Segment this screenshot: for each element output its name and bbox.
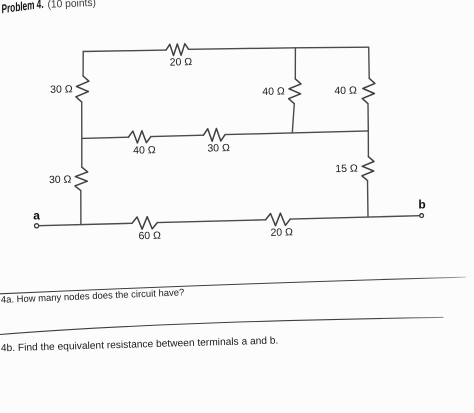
- resistor 30 ohm (upper left): [76, 76, 89, 102]
- svg-text:20 Ω: 20 Ω: [170, 56, 193, 69]
- svg-text:15 Ω: 15 Ω: [335, 163, 358, 176]
- wire: 20-ohm to T-junction to top-right corner: [189, 47, 369, 49]
- svg-text:(10 points): (10 points): [47, 0, 96, 11]
- wire: bottom rail between 60 and 20 ohm: [157, 220, 265, 223]
- resistor 40 ohm (right branch): [362, 78, 375, 103]
- wire: first 40-ohm branch upper lead: [294, 48, 296, 79]
- rule line for question 4a: [0, 277, 466, 294]
- svg-text:30 Ω: 30 Ω: [50, 83, 73, 96]
- svg-text:Problem 4.: Problem 4.: [1, 0, 45, 16]
- svg-text:40 Ω: 40 Ω: [334, 85, 357, 98]
- rule line for question 4b: [0, 317, 444, 334]
- resistor 20 ohm (bottom rail): [266, 213, 291, 226]
- wire: bottom rail 20 ohm to b: [290, 216, 419, 219]
- wire: right vertical between 40 and middle rail: [367, 104, 369, 131]
- resistor 20 ohm (top wire): [166, 44, 189, 56]
- svg-text:a: a: [33, 208, 40, 222]
- node b terminal: [420, 214, 424, 218]
- svg-text:b: b: [418, 198, 425, 212]
- svg-text:40 Ω: 40 Ω: [133, 144, 156, 157]
- question 4b text: [1, 336, 279, 355]
- wire: right vertical between middle rail and 15 ohm: [367, 131, 369, 157]
- resistor 15 ohm (right branch): [362, 157, 374, 181]
- svg-text:20 Ω: 20 Ω: [270, 226, 293, 239]
- wire: left vertical upper segment: [82, 52, 84, 77]
- node a terminal: [35, 224, 39, 228]
- wire: first 40-ohm branch lower lead: [292, 104, 294, 133]
- header: (10 points): [47, 0, 96, 11]
- svg-text:4b. Find the equivalent resist: 4b. Find the equivalent resistance betwe…: [1, 336, 279, 355]
- wire: left vertical middle segment: [81, 102, 83, 167]
- wire: right vertical lower lead: [367, 181, 370, 217]
- svg-text:30 Ω: 30 Ω: [207, 142, 230, 155]
- wire: top-left to 20-ohm: [83, 50, 166, 51]
- question 4a text: [1, 287, 185, 306]
- svg-text:60 Ω: 60 Ω: [138, 230, 161, 243]
- wire: bottom rail a to 60 ohm: [39, 223, 132, 225]
- wire: middle rail between 40 and 30 ohm: [151, 135, 204, 136]
- resistor 60 ohm (bottom rail): [132, 217, 157, 230]
- resistor 30 ohm (middle rail): [203, 129, 225, 142]
- svg-text:40 Ω: 40 Ω: [262, 85, 285, 98]
- header: Problem 4. (10 points): [1, 0, 45, 16]
- svg-text:30 Ω: 30 Ω: [49, 174, 72, 187]
- wire: right vertical upper lead: [368, 47, 371, 78]
- resistor 40 ohm (middle rail): [128, 131, 151, 143]
- wire: left vertical lower segment: [80, 191, 82, 225]
- wire: middle rail left segment: [82, 137, 129, 138]
- resistor 30 ohm (lower left): [75, 167, 88, 190]
- resistor 40 ohm (left branch): [289, 79, 301, 104]
- wire: middle rail right segment: [225, 131, 368, 135]
